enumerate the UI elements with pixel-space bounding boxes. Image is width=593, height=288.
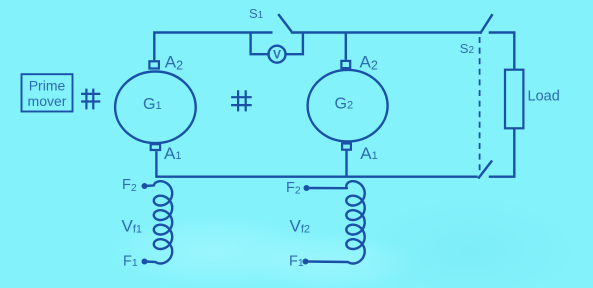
field coil Vf1 — [145, 181, 173, 263]
voltmeter V1 circle — [269, 46, 286, 63]
terminal A1 of G1 — [151, 144, 160, 150]
switch S2 top blade — [480, 14, 492, 33]
svg-text:G1: G1 — [143, 96, 162, 113]
svg-text:F2: F2 — [286, 180, 301, 197]
wire: bottom bus — [156, 151, 477, 177]
svg-text:A1: A1 — [360, 144, 377, 163]
terminal dot F2 left — [142, 183, 148, 189]
svg-text:Vf2: Vf2 — [290, 216, 311, 235]
terminal A2 of G2 — [341, 61, 350, 68]
svg-text:A2: A2 — [165, 52, 183, 72]
shaft coupling 2 — [231, 90, 252, 111]
svg-text:S2: S2 — [460, 41, 475, 56]
svg-text:S1: S1 — [249, 6, 264, 21]
svg-text:Load: Load — [528, 89, 560, 105]
switch S2 bottom blade — [478, 161, 492, 179]
prime mover box — [22, 74, 73, 111]
generator G1 circle — [115, 72, 196, 144]
terminal A2 of G1 — [149, 61, 159, 68]
svg-text:Prime: Prime — [29, 77, 66, 93]
svg-text:F2: F2 — [122, 177, 137, 194]
svg-text:mover: mover — [28, 93, 67, 109]
wire: top bus left segment — [154, 33, 272, 61]
wire: G2 A1 to bottom bus — [345, 150, 347, 176]
svg-text:A2: A2 — [360, 53, 378, 73]
wire: G2 A2 drop — [345, 33, 347, 60]
wire: load bottom to bottom bus — [489, 128, 515, 176]
terminal dot F1 left — [142, 259, 148, 265]
terminal dot F2 right — [304, 185, 310, 191]
switch S1 blade — [278, 14, 291, 32]
switch S2 mechanical link dashed — [479, 37, 481, 174]
terminal dot F1 right — [303, 259, 309, 265]
field coil Vf2 — [306, 181, 365, 263]
generator G2 circle — [308, 70, 388, 142]
wire: top bus middle segment — [291, 31, 482, 33]
voltmeter loop wire left — [251, 33, 269, 55]
svg-text:G2: G2 — [335, 96, 354, 113]
terminal A1 of G2 — [342, 144, 351, 150]
svg-text:Vf1: Vf1 — [122, 216, 143, 235]
wire: top bus right segment to load rail — [489, 33, 515, 70]
voltmeter loop wire right — [286, 33, 303, 55]
svg-text:V: V — [273, 48, 281, 62]
shaft coupling 1 — [81, 89, 100, 110]
svg-text:A1: A1 — [164, 144, 181, 163]
load resistor box — [505, 70, 523, 129]
